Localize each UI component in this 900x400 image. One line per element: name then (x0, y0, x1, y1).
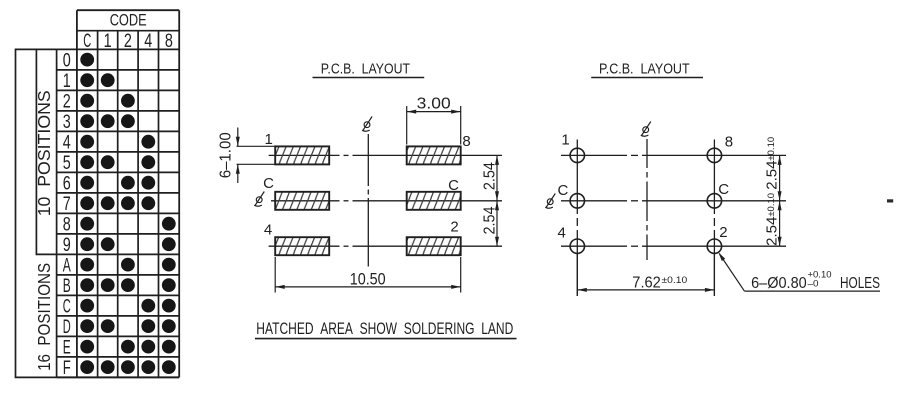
pin label C left (263, 175, 274, 192)
centerline symbol row C (254, 192, 264, 207)
vertical centerline col 1-4 (576, 140, 578, 215)
hole 1 (570, 148, 584, 162)
dim 2.54 top (left fig) (496, 155, 498, 200)
leader 6-dia0.80 holes (720, 254, 745, 291)
svg-text:6–Ø0.80: 6–Ø0.80 (751, 275, 807, 292)
svg-text:2: 2 (450, 219, 458, 236)
hole label 1 (561, 132, 569, 149)
10 POSITIONS label (34, 90, 54, 216)
svg-text:6–1.00: 6–1.00 (217, 132, 234, 178)
svg-text:CODE: CODE (110, 11, 147, 30)
svg-text:D: D (63, 317, 71, 338)
pad C hatched (407, 192, 461, 210)
hole label C left (557, 182, 568, 199)
pin label 4 (264, 222, 272, 239)
code dots (80, 53, 175, 374)
16 POSITIONS label (34, 263, 54, 371)
svg-text:1: 1 (561, 132, 569, 149)
hole C (570, 194, 584, 208)
hole 2 (707, 239, 721, 253)
svg-text:C: C (63, 297, 71, 318)
svg-text:C: C (718, 181, 729, 198)
svg-text:2.54: 2.54 (481, 206, 498, 234)
svg-text:C: C (448, 177, 459, 194)
caption HATCHED AREA ... (256, 320, 513, 338)
dim 2.54 +/-0.10 bottom (right fig) (779, 201, 781, 246)
svg-text:9: 9 (63, 235, 71, 256)
svg-text:16 POSITIONS: 16 POSITIONS (34, 263, 54, 371)
pad 4 hatched (275, 237, 329, 255)
10 positions bracket (36, 49, 56, 254)
svg-text:±0.10: ±0.10 (662, 275, 688, 286)
dim 7.62 +/-0.10 (577, 289, 714, 291)
dim 3.00 (406, 106, 408, 145)
svg-text:P.C.B. LAYOUT: P.C.B. LAYOUT (599, 61, 690, 78)
centerline row 4-2 (right fig) (561, 245, 627, 247)
hole 4 (570, 239, 584, 253)
svg-text:C: C (263, 175, 274, 192)
svg-text:B: B (63, 276, 71, 297)
pin label 1 (265, 131, 273, 148)
svg-text:10.50: 10.50 (350, 270, 386, 288)
centerline symbol top (right fig) (641, 122, 651, 137)
svg-text:2: 2 (719, 224, 727, 241)
centerline symbol top (362, 117, 372, 132)
svg-text:A: A (63, 256, 71, 277)
svg-text:1: 1 (265, 131, 273, 148)
svg-text:F: F (63, 358, 71, 379)
svg-text:8: 8 (165, 31, 173, 52)
svg-text:HOLES: HOLES (840, 275, 880, 292)
centerline symbol row C (right fig) (545, 194, 555, 209)
16 positions bracket (16, 49, 57, 377)
pin label 2 (450, 219, 458, 236)
note 6-dia0.80 +0.10/-0 HOLES (751, 270, 880, 292)
svg-text:1: 1 (104, 31, 112, 52)
svg-text:8: 8 (725, 134, 733, 151)
svg-text:2: 2 (124, 31, 132, 52)
svg-text:C: C (557, 182, 568, 199)
svg-text:4: 4 (144, 31, 152, 52)
pin label C right (448, 177, 459, 194)
centerline row 1-8 (269, 154, 340, 156)
svg-text:6: 6 (63, 174, 71, 195)
svg-text:HATCHED AREA SHOW SOLDERING: HATCHED AREA SHOW SOLDERING LAND (256, 320, 513, 338)
hole label 2 (719, 224, 727, 241)
pad 2 hatched (407, 237, 461, 255)
left title P.C.B. LAYOUT (321, 61, 410, 78)
svg-text:8: 8 (63, 215, 71, 236)
svg-text:3: 3 (63, 112, 71, 133)
pin label 8 (462, 133, 470, 150)
svg-text:8: 8 (462, 133, 470, 150)
table header text (63, 11, 173, 380)
dim 6-1.00 (237, 145, 276, 147)
svg-text:P.C.B. LAYOUT: P.C.B. LAYOUT (321, 61, 410, 78)
CODE table (57, 10, 180, 377)
dim 2.54 bottom (left fig) (496, 201, 498, 246)
vertical centerline col 8-2 (713, 140, 715, 215)
dim 2.54 +/-0.10 top (right fig) (779, 155, 781, 200)
pad 8 hatched (407, 146, 461, 164)
pad 1 hatched (275, 146, 329, 164)
centerline row C-C (right fig) (561, 200, 627, 202)
extension line col 8-2 (713, 254, 715, 297)
pad C hatched (275, 192, 329, 210)
centerline row C-C (271, 200, 340, 202)
centerline row 1-8 (right fig) (561, 154, 627, 156)
svg-text:4: 4 (264, 222, 272, 239)
vertical centerline (367, 134, 369, 186)
hole label 4 (558, 225, 566, 242)
svg-text:3.00: 3.00 (417, 95, 451, 112)
svg-text:1: 1 (63, 71, 71, 92)
svg-text:C: C (83, 31, 91, 52)
stray mark (887, 199, 893, 202)
right title P.C.B. LAYOUT (599, 61, 690, 78)
svg-text:2: 2 (63, 92, 71, 113)
svg-text:7: 7 (63, 194, 71, 215)
svg-text:E: E (63, 338, 71, 359)
svg-text:10 POSITIONS: 10 POSITIONS (34, 90, 54, 216)
hole label 8 (725, 134, 733, 151)
vertical centerline middle (646, 139, 648, 168)
extension line col 1-4 (576, 254, 578, 297)
hole C (707, 194, 721, 208)
svg-text:–0: –0 (808, 279, 819, 290)
dim 10.50 (274, 257, 276, 293)
svg-text:4: 4 (63, 133, 71, 154)
svg-text:4: 4 (558, 225, 566, 242)
svg-text:0: 0 (63, 51, 71, 72)
centerline row 4-2 (269, 245, 340, 247)
svg-text:2.54: 2.54 (481, 162, 498, 190)
svg-text:5: 5 (63, 153, 71, 174)
hole 8 (707, 148, 721, 162)
hole label C right (718, 181, 729, 198)
svg-text:7.62: 7.62 (632, 274, 661, 291)
